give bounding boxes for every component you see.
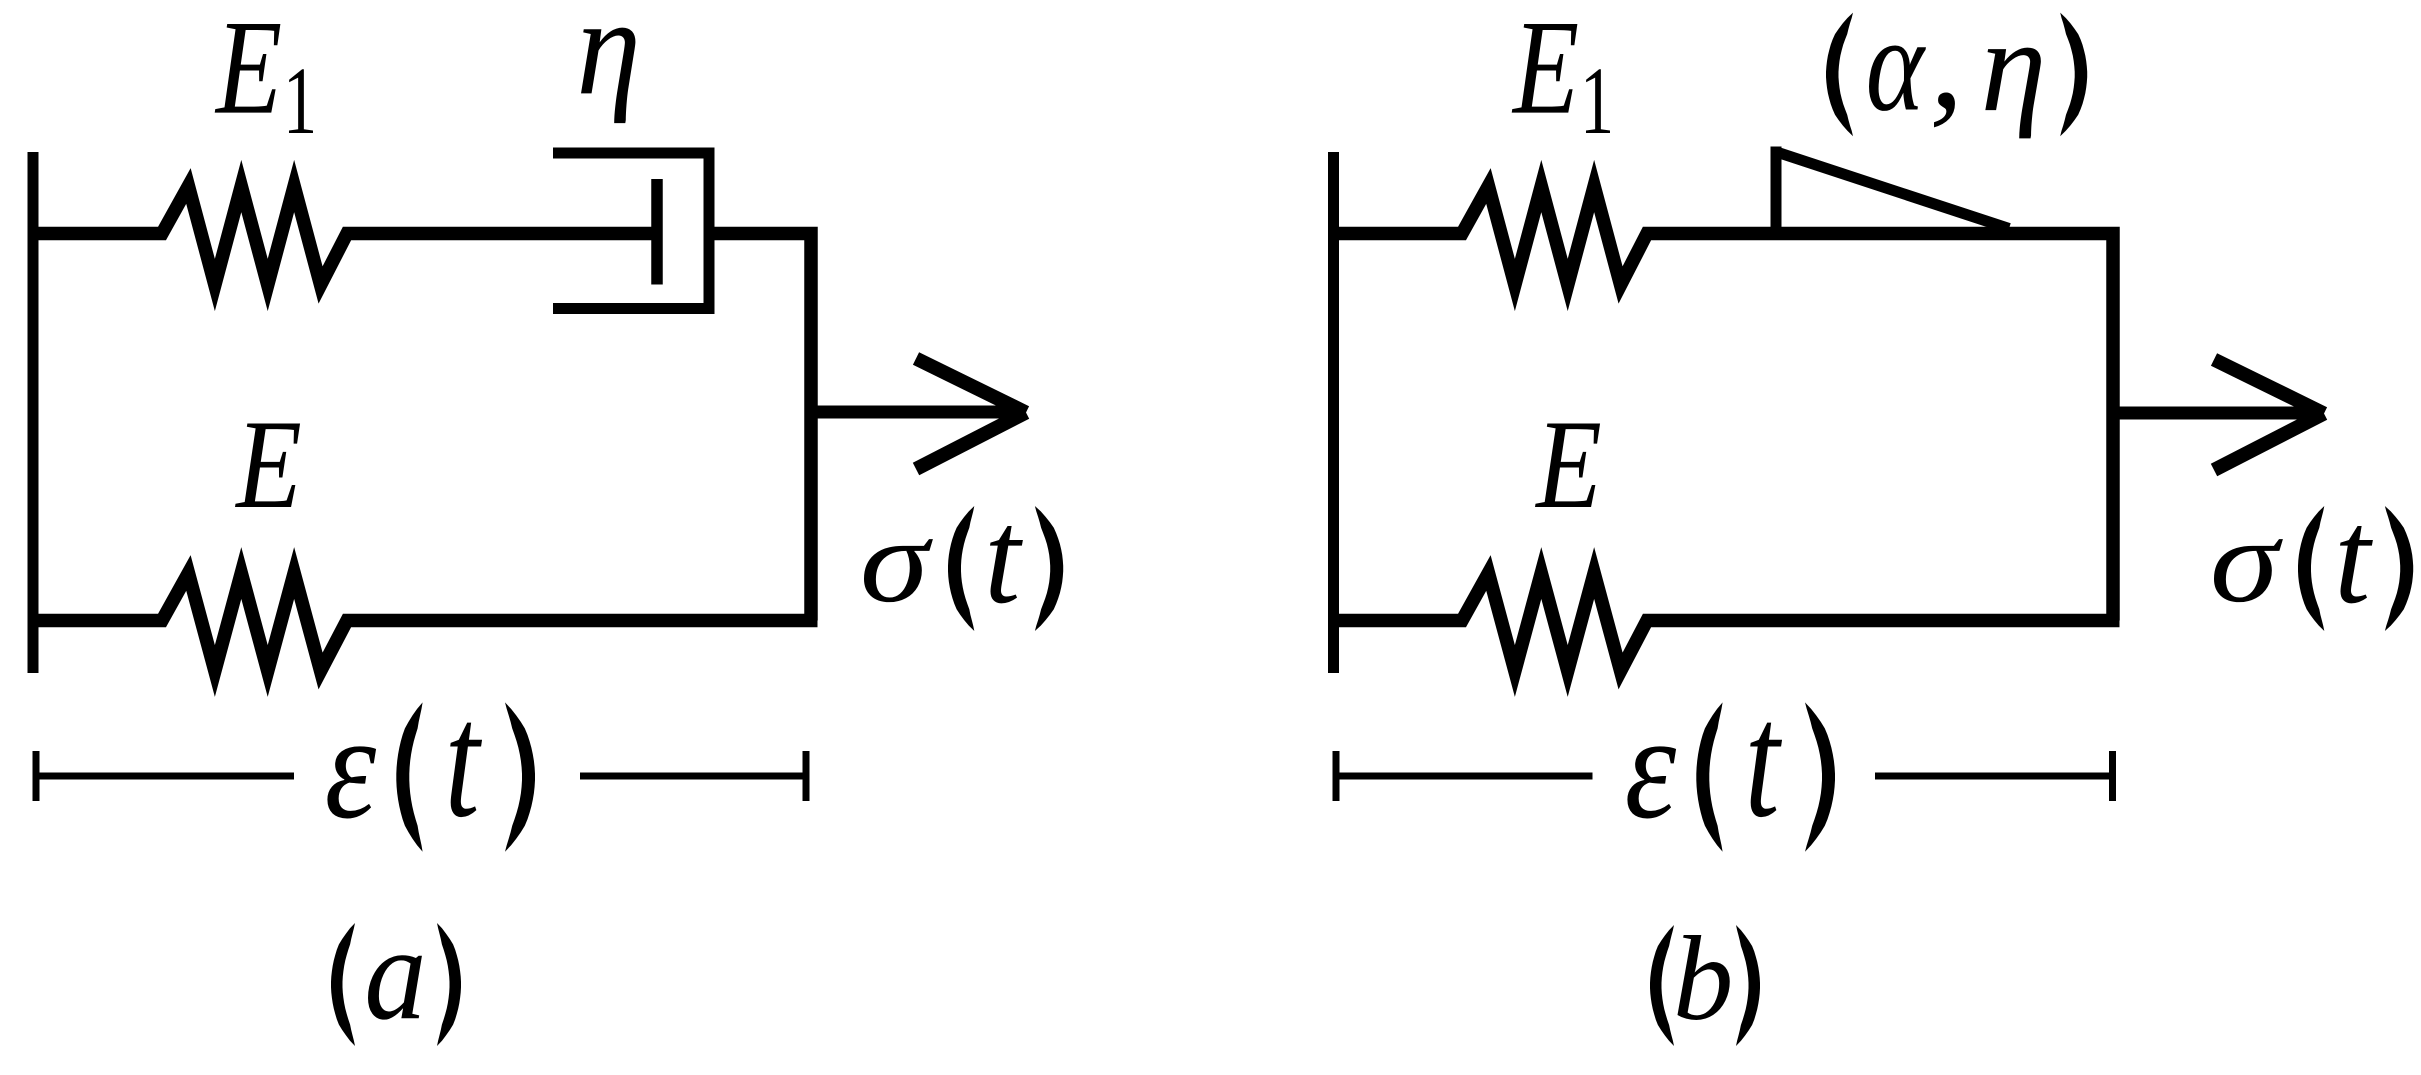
svg-text:t: t [445, 668, 483, 852]
svg-text:t: t [1745, 668, 1783, 852]
label sigma(t) (b) [2210, 482, 2413, 632]
dimension line epsilon(t) (a) left segment [33, 773, 295, 780]
label E (b) [1534, 395, 1601, 535]
svg-text:,: , [1930, 0, 1964, 137]
springpot wedge hypotenuse (b) [1777, 152, 2010, 229]
dimension line epsilon(t) (a) right tick [803, 751, 810, 801]
label E1 (a) [214, 0, 317, 155]
spring E (b) bottom branch with wire [1334, 573, 2120, 671]
svg-text:η: η [1981, 0, 2047, 139]
dimension line epsilon(t) (b) left tick [1333, 751, 1340, 801]
wall (b) left rigid support [1328, 152, 1339, 673]
dimension line epsilon(t) (a) right segment [580, 773, 810, 780]
svg-text:t: t [984, 482, 1023, 632]
svg-text:ε: ε [325, 685, 377, 850]
label epsilon(t) (a) [325, 668, 535, 852]
label (alpha, eta) (b) [1826, 0, 2087, 139]
caption (b) [1650, 912, 1760, 1046]
svg-text:E: E [1511, 0, 1579, 142]
spring E1 (b) top branch with wire to right corner and right vertical bar [1334, 186, 2114, 621]
svg-text:b: b [1673, 912, 1733, 1046]
svg-text:ε: ε [1625, 685, 1677, 850]
dimension line epsilon(t) (a) left tick [33, 751, 40, 801]
label eta (a) [576, 0, 640, 124]
svg-text:σ: σ [860, 495, 934, 628]
caption (a) [331, 899, 461, 1047]
label sigma(t) (a) [860, 482, 1063, 632]
svg-text:η: η [576, 0, 640, 124]
svg-text:1: 1 [283, 49, 317, 155]
arrow shaft sigma (a) [811, 406, 1019, 419]
label E1 (b) [1511, 0, 1614, 155]
springpot wedge vertical edge (b) [1771, 147, 1782, 234]
dimension line epsilon(t) (b) right tick [2109, 751, 2116, 801]
dashpot cylinder cup (a) [553, 153, 709, 309]
dashpot piston plate (a) [651, 179, 663, 285]
dimension line epsilon(t) (b) left segment [1333, 773, 1593, 780]
wall (a) left rigid support [28, 152, 39, 673]
svg-text:E: E [214, 0, 282, 142]
svg-text:t: t [2334, 482, 2373, 632]
svg-text:α: α [1866, 0, 1927, 139]
arrow head sigma (b) [2214, 360, 2324, 471]
svg-text:σ: σ [2210, 495, 2284, 628]
spring E1 (a) top branch with wire [33, 186, 653, 285]
label E (a) [234, 395, 301, 535]
svg-text:E: E [234, 395, 301, 535]
arrow head sigma (a) [916, 359, 1026, 470]
wire dashpot to right node and right vertical bar (a) [709, 234, 811, 621]
label epsilon(t) (b) [1625, 668, 1835, 852]
arrow shaft sigma (b) [2113, 407, 2317, 420]
svg-text:1: 1 [1580, 49, 1614, 155]
spring E (a) bottom branch with wire [33, 573, 818, 671]
svg-text:a: a [364, 899, 426, 1047]
dimension line epsilon(t) (b) right segment [1875, 773, 2116, 780]
svg-text:E: E [1534, 395, 1601, 535]
